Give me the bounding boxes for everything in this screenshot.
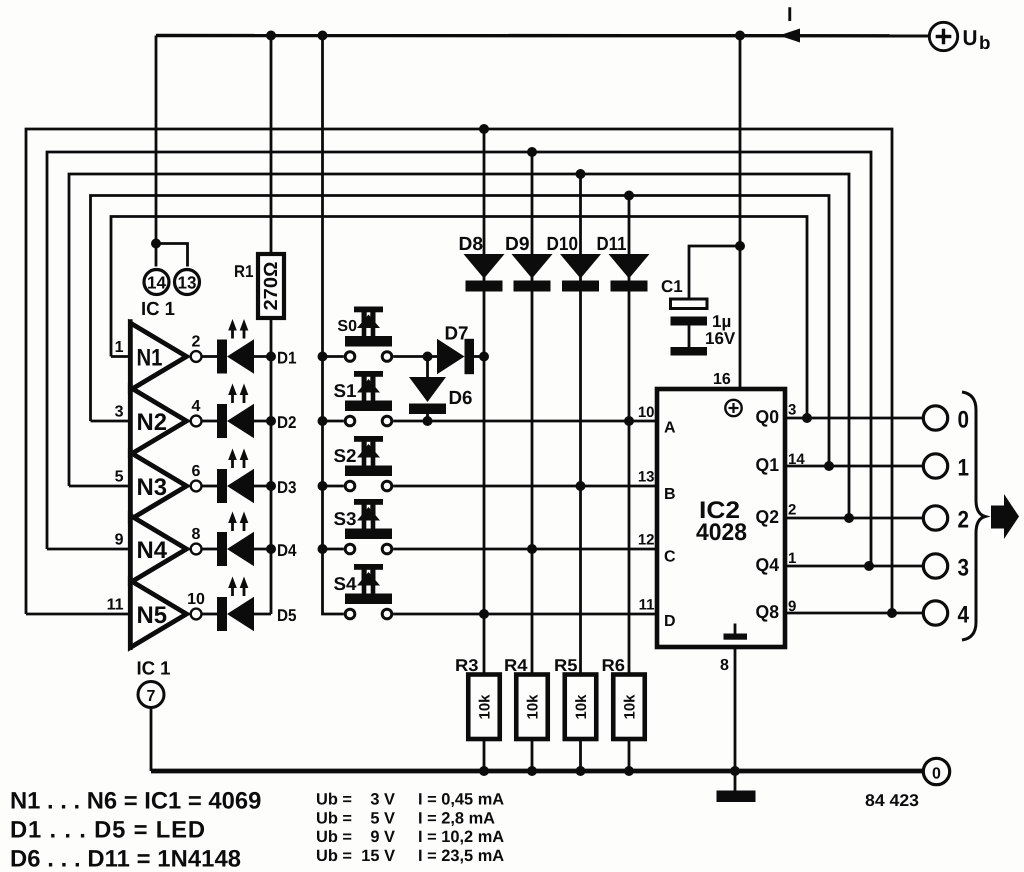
wire row B xyxy=(393,485,657,488)
IC2 4028 body xyxy=(657,389,785,647)
wire D9 column xyxy=(531,152,534,771)
supply plus marker inside IC2 xyxy=(725,400,741,416)
svg-text:C: C xyxy=(664,549,676,566)
resistor R6 xyxy=(613,675,645,740)
svg-text:13: 13 xyxy=(638,469,655,486)
ground marker inside IC2 xyxy=(734,624,737,635)
wire Q4 output xyxy=(785,565,922,568)
svg-text:D4: D4 xyxy=(277,541,297,560)
diode D10 xyxy=(560,254,601,292)
node top rail to R1 xyxy=(266,31,276,41)
node R5 ground xyxy=(576,766,586,776)
svg-text:B: B xyxy=(664,486,676,503)
resistor R5 xyxy=(565,675,597,740)
wire branch to pin 13 xyxy=(156,244,188,267)
wire feedback net Q2 to N3 xyxy=(69,174,849,518)
svg-text:N1: N1 xyxy=(137,345,163,372)
svg-text:1: 1 xyxy=(958,455,970,482)
svg-text:I = 0,45 mA: I = 0,45 mA xyxy=(418,791,504,809)
terminal output 1 xyxy=(923,454,947,478)
LED D2 xyxy=(202,420,218,423)
wire R1 to LED column xyxy=(270,318,273,614)
svg-text:I = 23,5 mA: I = 23,5 mA xyxy=(418,847,504,865)
svg-text:Ub =: Ub = xyxy=(316,791,352,809)
wire D8 column xyxy=(483,129,486,771)
LED D3 xyxy=(202,485,218,488)
svg-text:S0: S0 xyxy=(337,318,357,335)
inverter N3 xyxy=(69,485,128,488)
svg-text:4: 4 xyxy=(958,602,970,629)
svg-text:10: 10 xyxy=(638,404,655,421)
svg-text:0: 0 xyxy=(958,407,970,434)
svg-text:N5: N5 xyxy=(137,602,168,629)
wire D11 column xyxy=(628,196,631,772)
inverter N1 xyxy=(111,355,128,358)
svg-text:84 423: 84 423 xyxy=(865,791,919,810)
svg-text:D6 . . . D11 = 1N4148: D6 . . . D11 = 1N4148 xyxy=(10,846,241,872)
wire switch supply column xyxy=(323,36,344,615)
svg-text:3: 3 xyxy=(115,404,124,421)
pushbutton S4 xyxy=(345,564,392,619)
svg-text:11: 11 xyxy=(639,597,655,614)
svg-text:Ub =: Ub = xyxy=(316,810,352,828)
svg-text:8: 8 xyxy=(720,657,729,674)
svg-text:5 V: 5 V xyxy=(370,810,395,828)
svg-text:R1: R1 xyxy=(234,262,254,281)
svg-text:10k: 10k xyxy=(525,694,542,720)
wire feedback net Q8 to N5 xyxy=(26,129,892,614)
svg-text:D: D xyxy=(664,613,676,630)
svg-text:3 V: 3 V xyxy=(370,791,395,809)
IC1 pin 13 terminal xyxy=(175,270,200,295)
svg-text:b: b xyxy=(979,32,991,53)
svg-text:14: 14 xyxy=(147,273,166,293)
svg-text:4: 4 xyxy=(192,398,201,415)
ground C1 xyxy=(671,347,708,356)
svg-text:N4: N4 xyxy=(137,537,168,564)
wire feedback net Q1 to N2 xyxy=(91,196,830,467)
terminal output 0 xyxy=(923,406,947,430)
svg-text:1: 1 xyxy=(788,550,796,567)
svg-text:10: 10 xyxy=(187,591,205,608)
node R4 ground xyxy=(527,766,537,776)
svg-text:2: 2 xyxy=(788,502,796,519)
wire ground rail xyxy=(151,769,922,774)
svg-text:9: 9 xyxy=(115,532,124,549)
node R3 ground xyxy=(479,766,489,776)
svg-text:10k: 10k xyxy=(573,694,590,720)
LED D5 xyxy=(202,613,218,616)
svg-text:A: A xyxy=(664,420,676,437)
svg-text:D5: D5 xyxy=(277,606,297,625)
diode D9 xyxy=(512,254,553,292)
diode D8 xyxy=(464,254,505,292)
svg-text:6: 6 xyxy=(192,463,201,480)
wire R1 column top xyxy=(270,36,273,255)
terminal +Ub xyxy=(929,22,957,50)
svg-text:N1 . . . N6 = IC1 = 4069: N1 . . . N6 = IC1 = 4069 xyxy=(10,788,261,815)
wire feedback net Q0 to N1 xyxy=(111,217,807,419)
inverter N2 xyxy=(91,420,129,423)
svg-text:3: 3 xyxy=(958,555,970,582)
svg-text:7: 7 xyxy=(147,688,156,705)
wire IC2 pin16 column xyxy=(739,36,742,390)
pushbutton S2 xyxy=(318,481,328,491)
svg-text:Ub =: Ub = xyxy=(316,847,352,865)
svg-text:15 V: 15 V xyxy=(361,847,395,865)
wire feedback net Q4 to N4 xyxy=(47,152,871,566)
svg-text:IC 1: IC 1 xyxy=(137,659,171,680)
svg-text:9 V: 9 V xyxy=(370,828,395,846)
svg-text:C1: C1 xyxy=(661,277,683,296)
inverter N5 xyxy=(26,613,128,616)
node D11 column to Q1 net xyxy=(624,191,634,201)
wire Q2 output xyxy=(785,517,922,520)
resistor R4 xyxy=(516,675,548,740)
svg-text:R6: R6 xyxy=(602,656,626,675)
svg-text:U: U xyxy=(963,26,978,50)
svg-text:2: 2 xyxy=(192,334,201,351)
svg-text:11: 11 xyxy=(107,597,124,614)
wire Q0 output xyxy=(785,417,922,420)
resistor R3 xyxy=(468,675,500,740)
node pin8 ground xyxy=(730,766,740,776)
svg-text:Q2: Q2 xyxy=(756,506,780,527)
svg-text:Q0: Q0 xyxy=(756,406,780,427)
node D8 column to Q8 net xyxy=(479,124,489,134)
svg-text:S4: S4 xyxy=(334,573,358,594)
svg-text:R3: R3 xyxy=(455,656,479,675)
svg-text:R4: R4 xyxy=(504,656,528,675)
svg-text:I = 2,8 mA: I = 2,8 mA xyxy=(418,810,495,828)
svg-text:2: 2 xyxy=(958,507,970,534)
svg-text:R5: R5 xyxy=(554,656,578,675)
svg-text:8: 8 xyxy=(192,526,201,543)
LED D1 xyxy=(202,355,218,358)
svg-text:N2: N2 xyxy=(137,409,168,436)
pushbutton S3 xyxy=(318,544,328,554)
arrow output xyxy=(991,494,1019,539)
wire IC1 pin7 to ground rail xyxy=(150,709,153,772)
terminal output 3 xyxy=(923,554,947,578)
diode D7 xyxy=(423,352,433,362)
terminal output 4 xyxy=(923,601,947,625)
LED D4 xyxy=(202,548,218,551)
wire row C xyxy=(393,548,657,551)
wire top supply rail xyxy=(156,34,930,38)
wire row D xyxy=(393,613,657,616)
svg-text:S1: S1 xyxy=(334,380,357,401)
svg-text:D2: D2 xyxy=(277,413,297,432)
svg-text:D7: D7 xyxy=(445,324,469,345)
svg-text:270Ω: 270Ω xyxy=(261,262,282,311)
svg-text:D9: D9 xyxy=(505,234,530,255)
svg-text:Q1: Q1 xyxy=(756,454,780,475)
diode D11 xyxy=(609,254,650,292)
node top rail to IC2 pin16 xyxy=(735,31,745,41)
svg-text:16V: 16V xyxy=(705,329,736,348)
wire Q1 output xyxy=(785,465,922,468)
svg-text:IC 1: IC 1 xyxy=(141,299,175,320)
svg-text:1: 1 xyxy=(115,339,124,356)
svg-text:D10: D10 xyxy=(547,234,579,255)
capacitor C1 xyxy=(735,241,745,251)
wire IC1 supply column xyxy=(155,36,158,267)
svg-text:10k: 10k xyxy=(622,694,639,720)
svg-text:Ub =: Ub = xyxy=(316,828,352,846)
pushbutton S0 xyxy=(318,352,328,362)
brace output group xyxy=(962,392,985,640)
terminal output 2 xyxy=(923,506,947,530)
svg-text:N3: N3 xyxy=(137,474,168,501)
svg-text:13: 13 xyxy=(178,273,197,293)
svg-text:5: 5 xyxy=(115,469,124,486)
svg-text:D11: D11 xyxy=(597,234,627,255)
svg-text:10k: 10k xyxy=(477,694,494,720)
node D10 column to Q2 net xyxy=(576,169,586,179)
svg-text:4028: 4028 xyxy=(696,519,747,546)
svg-text:Q4: Q4 xyxy=(756,554,780,575)
node D9 column to Q4 net xyxy=(527,147,537,157)
svg-text:Q8: Q8 xyxy=(756,601,780,622)
resistor R1 xyxy=(258,254,284,318)
inverter N4 xyxy=(47,548,128,551)
svg-text:S2: S2 xyxy=(334,445,357,466)
node junction IC1 pin14 xyxy=(151,239,161,249)
svg-text:I: I xyxy=(787,4,793,26)
node R6 ground xyxy=(624,766,634,776)
wire D10 column xyxy=(579,174,582,771)
svg-text:S3: S3 xyxy=(334,508,357,529)
svg-text:D6: D6 xyxy=(449,388,473,409)
wire row A xyxy=(393,420,657,423)
svg-text:D1: D1 xyxy=(277,349,297,368)
svg-text:D8: D8 xyxy=(459,234,484,255)
current arrow I xyxy=(779,29,800,43)
terminal 0 ground xyxy=(923,758,949,784)
svg-text:16: 16 xyxy=(713,371,731,388)
diode D6 xyxy=(426,357,429,378)
pushbutton S1 xyxy=(318,416,328,426)
node top rail to switch column xyxy=(318,31,328,41)
svg-text:12: 12 xyxy=(638,532,655,549)
svg-text:I = 10,2 mA: I = 10,2 mA xyxy=(418,828,504,846)
wire Q8 output xyxy=(785,612,922,615)
svg-text:D1 . . . D5 = LED: D1 . . . D5 = LED xyxy=(10,817,205,844)
IC1 pin 14 terminal xyxy=(144,270,169,295)
svg-text:3: 3 xyxy=(788,402,796,419)
svg-text:D3: D3 xyxy=(277,478,297,497)
svg-text:0: 0 xyxy=(932,766,941,783)
ground symbol xyxy=(734,771,737,791)
